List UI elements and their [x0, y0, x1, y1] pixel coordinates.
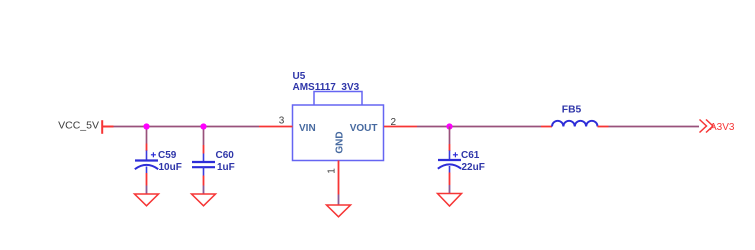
node junction at C59: [143, 123, 149, 129]
svg-text:C59: C59: [158, 150, 177, 161]
pin 3 VIN: [259, 126, 293, 128]
svg-text:GND: GND: [334, 131, 345, 153]
wire junction to C59: [146, 127, 148, 144]
ferrite bead FB5: [541, 105, 609, 127]
node junction at C61: [446, 123, 452, 129]
wire junction to C61: [449, 127, 451, 145]
node junction at C60: [200, 123, 206, 129]
svg-text:A3V3: A3V3: [710, 122, 735, 133]
wire FB5 to A3V3: [609, 126, 700, 128]
svg-text:VOUT: VOUT: [350, 123, 378, 134]
wire junction to C60: [203, 127, 205, 146]
svg-text:C60: C60: [216, 150, 235, 161]
capacitor C59 10uF polarized: [135, 150, 182, 173]
power port VCC_5V: [58, 120, 113, 134]
pin 1 GND: [338, 161, 340, 195]
capacitor C61 22uF polarized: [438, 150, 485, 173]
wire VCC_5V to U5 VIN: [114, 126, 260, 128]
pin 2 VOUT: [384, 126, 417, 128]
regulator U5 AMS1117_3V3: [293, 71, 384, 161]
svg-text:2: 2: [391, 117, 397, 128]
capacitor C60 1uF: [192, 150, 235, 175]
ground below C59: [135, 194, 159, 206]
wire U5 VOUT to FB5: [417, 126, 541, 128]
ground below C60: [192, 194, 216, 206]
wire C61 to ground: [449, 173, 451, 186]
svg-text:10uF: 10uF: [159, 162, 182, 173]
svg-text:1: 1: [327, 168, 338, 174]
wire C60 to ground: [203, 176, 205, 186]
ground below C61: [438, 194, 462, 207]
svg-text:FB5: FB5: [562, 105, 582, 116]
svg-text:1uF: 1uF: [217, 162, 235, 173]
svg-text:C61: C61: [461, 150, 480, 161]
svg-text:VCC_5V: VCC_5V: [58, 120, 99, 132]
svg-text:U5: U5: [293, 71, 306, 82]
svg-text:22uF: 22uF: [462, 162, 485, 173]
port A3V3: [700, 120, 735, 133]
svg-text:VIN: VIN: [299, 123, 316, 134]
wire C59 to ground: [146, 173, 148, 186]
svg-text:3: 3: [279, 116, 285, 127]
ground below U5: [327, 205, 351, 217]
